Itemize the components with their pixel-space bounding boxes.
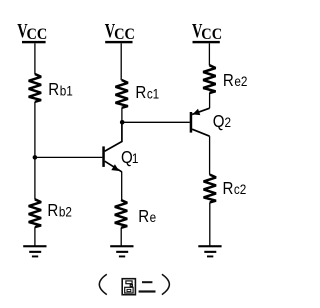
svg-text:CC: CC [27,25,48,43]
svg-text:CC: CC [114,25,135,43]
net label VCC (middle) [105,19,135,43]
svg-text:R: R [138,206,149,227]
ground (right) [198,245,221,257]
net label VCC (right) [192,19,222,43]
svg-text:e: e [150,209,157,225]
wire base node to Rb2 top [34,157,36,199]
resistor Rc1 [116,80,128,108]
resistor Rb1 [29,74,41,102]
label Rc1 [135,82,159,103]
wire collector node down to Q1 collector [105,122,122,151]
svg-text:CC: CC [201,25,222,43]
label Re [138,206,156,227]
label Rb2 [47,200,71,221]
wire Re2 bottom to Q2 emitter [209,93,211,108]
svg-text:e2: e2 [234,73,247,89]
wire VCC bar to Rb1 top [34,43,36,74]
resistor Re2 [203,65,215,93]
resistor Re [115,200,127,228]
power rail bar (right) [193,41,220,43]
net label VCC (left) [17,19,47,43]
caption (圖二) [99,274,169,295]
svg-text:Q: Q [213,111,225,132]
wire collector node to Q2 base [122,121,190,123]
wire Rb1 bottom to base node [34,102,36,158]
wire Q2 collector to Rc2 top [209,136,211,175]
label Rc2 [223,178,247,199]
label Re2 [223,70,247,91]
power rail bar (middle) [105,41,132,43]
svg-text:c2: c2 [234,181,246,197]
node: junction of Rb1/Rb2 and Q1 base [33,155,38,160]
svg-text:c1: c1 [147,85,159,101]
transistor Q1 (NPN) [102,146,121,171]
wire Q1 emitter to Re top [121,172,123,201]
svg-text:2: 2 [225,114,232,130]
svg-text:1: 1 [132,150,139,166]
resistor Rc2 [204,175,216,203]
wire VCC bar to Rc1 top [120,43,122,80]
svg-text:R: R [47,200,58,221]
ground (left) [23,245,46,257]
svg-text:R: R [135,82,146,103]
wire Rc1 bottom to collector node [121,108,123,123]
node: junction of Rc1, Q1 collector and Q2 base [120,120,125,125]
svg-text:b1: b1 [60,83,73,99]
label Q1 [121,147,138,168]
resistor Rb2 [29,199,41,227]
svg-text:R: R [48,79,59,100]
wire Re bottom to ground [120,228,122,246]
wire Rb2 bottom to ground [34,227,36,245]
power rail bar (left) [22,41,46,43]
label Q2 [213,111,231,132]
label Rb1 [48,79,72,100]
wire Rc2 bottom to ground [209,202,211,245]
svg-text:R: R [223,70,234,91]
transistor Q2 (PNP) [190,108,210,136]
svg-text:R: R [223,178,234,199]
wire base node to Q1 base [35,156,103,158]
wire VCC bar to Re2 top [208,43,210,65]
ground (middle) [110,245,133,257]
svg-text:b2: b2 [59,203,72,219]
